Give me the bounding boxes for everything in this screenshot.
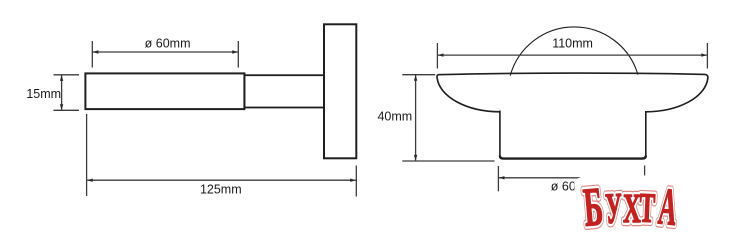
front view: soap dish bowl left underside curve xyxy=(437,75,500,112)
dimension ø60mm (side view): right extension line xyxy=(237,41,239,68)
dimension ø60mm (cup): left arrowhead xyxy=(499,176,505,179)
front view: glass dome lid arc xyxy=(510,27,638,76)
svg-text:110mm: 110mm xyxy=(552,36,593,50)
watermark БУХТА: red letters xyxy=(581,176,680,238)
dimension 40mm: top extension line xyxy=(402,74,435,76)
dimension 125mm: right extension line xyxy=(355,166,357,197)
dimension ø60mm (cup): right extension line xyxy=(644,166,646,191)
dimension ø60mm (cup): right arrowhead xyxy=(639,176,645,179)
svg-text:Т: Т xyxy=(638,186,656,232)
watermark БУХТА: outer pale red edge xyxy=(581,176,680,238)
front view: holder cup bottom xyxy=(500,156,646,159)
watermark sticker white background xyxy=(574,175,695,235)
dimension 110mm: right arrowhead xyxy=(701,53,707,56)
dimension 15mm: bottom extension line xyxy=(54,109,80,111)
front view: holder cup right side xyxy=(645,111,647,157)
dimension ø60mm (side view): dimension line xyxy=(93,51,238,53)
side view: inner tube section xyxy=(244,75,324,107)
dimension ø60mm (cup): dimension line xyxy=(499,177,644,179)
dimension 110mm: right extension line xyxy=(706,43,708,69)
svg-text:15mm: 15mm xyxy=(26,87,61,101)
dimension 125mm: left arrowhead xyxy=(87,179,93,182)
watermark БУХТА: white outline xyxy=(581,176,680,238)
front view: soap dish bowl top edge and right underside curve xyxy=(438,73,708,112)
dimension 40mm: bottom extension line xyxy=(402,160,494,162)
dimension ø60mm (cup): left extension line xyxy=(497,166,499,191)
side view: wall mount plate xyxy=(324,24,356,158)
dimension 40mm: dimension line xyxy=(415,75,417,160)
dimension 15mm: bottom arrowhead xyxy=(60,104,63,110)
dimension 15mm: top extension line xyxy=(54,74,80,76)
front view: holder cup left side xyxy=(499,111,501,157)
dimension 110mm: left arrowhead xyxy=(438,53,444,56)
dimension 40mm: top arrowhead xyxy=(414,75,417,81)
svg-text:125mm: 125mm xyxy=(200,183,242,197)
svg-text:ø 60mm: ø 60mm xyxy=(145,36,191,50)
dimension ø60mm (side view): left extension line xyxy=(91,41,93,68)
svg-text:40mm: 40mm xyxy=(377,110,412,124)
svg-text:У: У xyxy=(604,184,623,233)
dimension ø60mm (side view): left arrowhead xyxy=(93,50,99,53)
dimension ø60mm (side view): right arrowhead xyxy=(232,50,238,53)
dimension 125mm: dimension line xyxy=(87,179,356,181)
dimension 125mm: left extension line xyxy=(86,114,88,196)
dimension 15mm: dimension line xyxy=(61,75,63,110)
dimension 40mm: bottom arrowhead xyxy=(414,155,417,161)
dimension 110mm: left extension line xyxy=(436,43,438,69)
dimension 15mm: top arrowhead xyxy=(60,75,63,81)
dimension 125mm: right arrowhead xyxy=(350,179,356,182)
dimension 110mm: dimension line xyxy=(438,54,707,56)
side view: main tube body xyxy=(85,73,244,109)
